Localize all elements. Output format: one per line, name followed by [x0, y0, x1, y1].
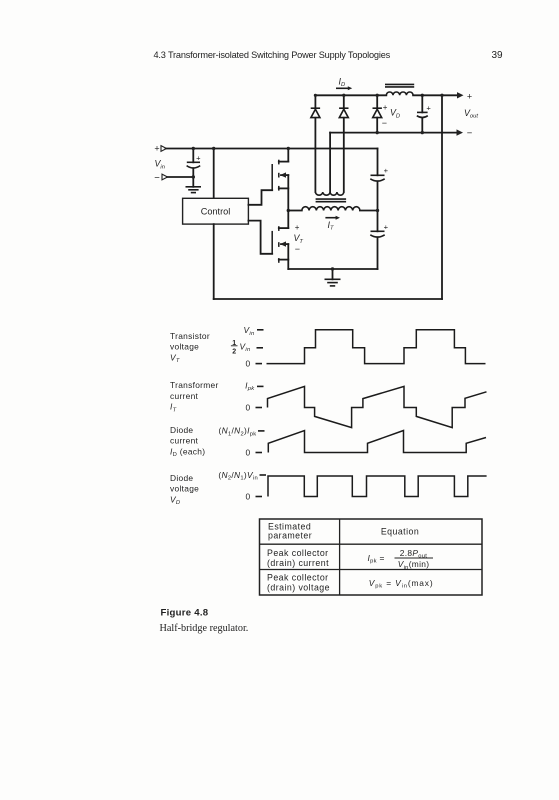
waveform 4 axis labels — [218, 470, 266, 502]
waveform 3 label: Diode current ID (each) — [170, 425, 205, 458]
svg-text:−: − — [154, 172, 160, 183]
svg-text:39: 39 — [491, 50, 503, 61]
svg-text:Half-bridge regulator.: Half-bridge regulator. — [160, 623, 249, 634]
svg-text:(drain) voltage: (drain) voltage — [267, 583, 330, 593]
svg-text:+: + — [467, 91, 472, 101]
diode D3 (freewheel) — [373, 95, 382, 132]
svg-text:Diode: Diode — [170, 425, 193, 435]
waveform 3 trace: ID ramp pulses — [268, 431, 486, 453]
table frame — [260, 519, 483, 595]
wire: bottom feedback rail — [214, 298, 442, 300]
label IT with arrow — [325, 216, 340, 232]
input + terminal — [154, 144, 166, 154]
svg-text:(N2/N1)Vin: (N2/N1)Vin — [218, 470, 258, 482]
svg-text:+: + — [384, 166, 389, 175]
junction dot: - input joins cap leg — [192, 175, 195, 178]
wire: upper gate drive — [248, 190, 272, 205]
svg-text:voltage: voltage — [170, 342, 199, 352]
svg-text:0: 0 — [246, 403, 251, 413]
transformer T1 core — [316, 199, 347, 202]
waveform 1 axis labels — [231, 325, 264, 369]
output - arrow terminal — [457, 128, 473, 139]
waveform 3 axis labels — [219, 426, 265, 458]
figure caption — [160, 608, 249, 634]
table row 3: peak collector voltage — [267, 573, 433, 593]
svg-text:−: − — [467, 128, 473, 139]
svg-text:Vin: Vin — [243, 325, 254, 337]
junction dots on - rail — [376, 131, 379, 134]
wire: - output rail from center tap — [330, 132, 457, 134]
waveform 2 trace: IT ramps — [268, 386, 487, 427]
output + arrow terminal — [457, 91, 472, 101]
svg-text:(N1/N2)Ipk: (N1/N2)Ipk — [219, 426, 257, 438]
waveform 4 trace: VD square wave — [268, 476, 487, 497]
wire: top input rail — [166, 148, 378, 150]
ground G1 (input) — [186, 187, 202, 193]
svg-text:Vin: Vin — [155, 159, 165, 171]
svg-text:Equation: Equation — [381, 526, 419, 536]
svg-text:+: + — [384, 223, 389, 232]
diode D2 — [339, 95, 348, 117]
svg-text:+: + — [426, 103, 431, 112]
svg-text:Ipk: Ipk — [245, 380, 255, 392]
wire: Control box down to feedback rail — [213, 224, 215, 299]
svg-text:+: + — [154, 144, 159, 154]
wire: rail after choke to + terminal — [413, 94, 457, 96]
svg-text:VD: VD — [390, 108, 400, 120]
svg-text:Transistor: Transistor — [170, 331, 210, 341]
Control block U1 — [183, 198, 249, 224]
label VD with polarity — [382, 103, 400, 128]
inductor T1 primary winding — [288, 207, 377, 211]
svg-text:Transformer: Transformer — [170, 380, 219, 390]
svg-text:parameter: parameter — [268, 531, 312, 541]
svg-text:(drain) current: (drain) current — [267, 558, 329, 568]
svg-text:+: + — [383, 103, 388, 112]
input - terminal — [154, 172, 167, 183]
capacitor C1 (divider top) — [370, 149, 388, 182]
svg-text:current: current — [170, 436, 199, 446]
svg-text:voltage: voltage — [170, 484, 199, 494]
svg-text:Vout: Vout — [464, 108, 478, 120]
svg-text:IT: IT — [328, 220, 334, 232]
waveform 4 label: Diode voltage VD — [170, 473, 199, 506]
junction dot: Cin top on rail — [192, 147, 195, 150]
svg-text:−: − — [382, 118, 387, 128]
label VT with polarity — [294, 223, 304, 254]
svg-text:−: − — [295, 244, 300, 254]
svg-text:ID (each): ID (each) — [170, 446, 205, 458]
waveform 1 label: Transistor voltage VT — [170, 331, 210, 364]
svg-text:IT: IT — [170, 402, 177, 414]
svg-text:0: 0 — [246, 448, 251, 458]
wire: right feedback riser to +out rail — [441, 95, 443, 299]
junction dot: control wire on rail — [212, 147, 215, 150]
waveform 2 axis labels — [245, 380, 263, 412]
table row 2: peak collector current — [267, 548, 433, 571]
waveform 2 label: Transformer current IT — [170, 380, 219, 413]
svg-text:+: + — [295, 223, 300, 232]
wire: - input lead — [167, 176, 193, 178]
svg-text:current: current — [170, 391, 199, 401]
svg-text:Ipk =: Ipk = — [368, 553, 385, 565]
transistor Q2 (lower MOSFET) — [272, 211, 288, 270]
svg-text:Vpk = Vin(max): Vpk = Vin(max) — [369, 578, 434, 590]
junction dot: Q1 drain on rail — [287, 147, 290, 150]
svg-text:2: 2 — [232, 349, 236, 356]
capacitor Cin (input electrolytic) — [187, 149, 201, 187]
svg-text:0: 0 — [246, 491, 251, 501]
svg-text:Peak collector: Peak collector — [267, 573, 329, 583]
svg-text:ID: ID — [339, 76, 346, 88]
wire: top + output rail — [315, 94, 386, 96]
svg-text:Figure 4.8: Figure 4.8 — [161, 608, 209, 619]
svg-text:0: 0 — [246, 359, 251, 369]
ground G2 (bridge bottom) — [325, 269, 341, 286]
capacitor Cout — [417, 95, 432, 132]
svg-text:4.3 Transformer-isolated Switc: 4.3 Transformer-isolated Switching Power… — [154, 50, 391, 60]
diode D1 — [311, 95, 320, 117]
svg-text:Control: Control — [201, 207, 231, 217]
wire: rail to Control box — [213, 149, 215, 199]
wire: inner bottom rail — [288, 268, 377, 270]
svg-text:Diode: Diode — [170, 473, 193, 483]
transistor Q1 (upper MOSFET) — [272, 149, 288, 211]
wire: lower gate drive — [248, 221, 272, 254]
junction dots on top rail — [314, 94, 317, 97]
svg-text:Vin: Vin — [240, 341, 251, 353]
inductor T1 secondary winding (center-tapped) — [315, 118, 343, 195]
svg-text:Peak collector: Peak collector — [267, 548, 329, 558]
svg-text:VD: VD — [170, 494, 180, 506]
label ID with arrow — [336, 76, 352, 90]
svg-text:VT: VT — [170, 352, 180, 364]
junction dot: ground on bottom rail — [331, 267, 334, 270]
inductor L1 (output choke) — [385, 84, 414, 95]
node: divider midpoint — [376, 209, 379, 212]
svg-text:+: + — [196, 153, 201, 162]
table header — [268, 522, 419, 541]
node: half-bridge midpoint — [287, 209, 290, 212]
waveform 1 trace: VT staircase — [267, 330, 486, 364]
capacitor C2 (divider bottom) — [370, 181, 388, 269]
